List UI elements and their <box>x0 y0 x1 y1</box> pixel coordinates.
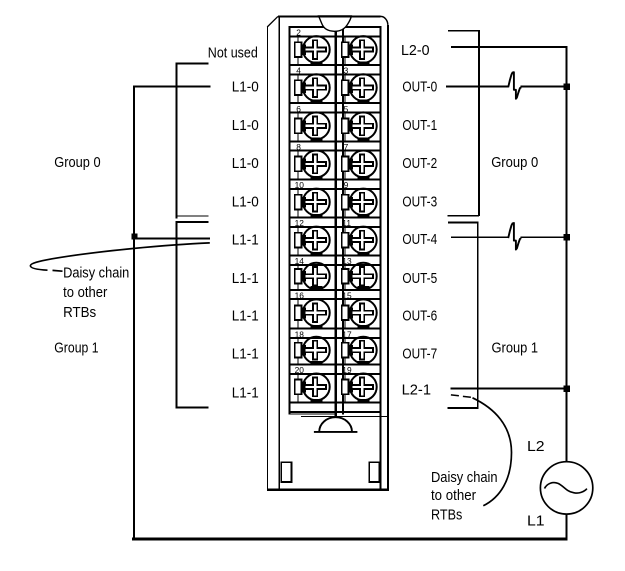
svg-text:14: 14 <box>295 256 305 266</box>
strip border row 10 top <box>289 363 382 365</box>
svg-text:3: 3 <box>344 66 349 76</box>
wire: vertical below AC source <box>565 514 567 541</box>
svg-text:4: 4 <box>296 66 301 76</box>
terminal 9 (right col row 5) <box>344 190 345 217</box>
terminal 15 (right col row 8) <box>344 300 345 328</box>
strip border row 11 top <box>289 401 382 403</box>
wire: L1-0 stub row2 <box>133 85 211 87</box>
terminal 20 (left col row 10) <box>297 375 298 402</box>
svg-text:6: 6 <box>296 104 301 114</box>
svg-text:9: 9 <box>344 180 349 190</box>
wire: OUT-4 right segment <box>520 236 566 238</box>
strip border row 6 bottom <box>289 226 382 228</box>
svg-text:L1-0: L1-0 <box>232 117 259 134</box>
svg-text:L2: L2 <box>527 438 545 455</box>
bracket: right group1 bottom stub <box>447 407 478 409</box>
bracket: left group bracket upper vertical <box>176 63 178 219</box>
separator: left thick line group 1 top <box>176 221 209 223</box>
svg-text:OUT-1: OUT-1 <box>402 117 437 134</box>
wire: OUT-4 left segment <box>451 236 509 238</box>
bracket: right group1 vertical <box>477 221 479 408</box>
svg-text:L1: L1 <box>527 512 545 529</box>
strip border row 5 bottom <box>289 188 382 190</box>
svg-text:10: 10 <box>295 180 305 190</box>
strip border row 7 bottom <box>289 264 382 266</box>
svg-text:L1-0: L1-0 <box>232 155 259 172</box>
svg-text:Not used: Not used <box>208 45 258 62</box>
svg-text:5: 5 <box>344 104 349 114</box>
RTB outer outline left <box>267 27 268 490</box>
svg-text:L1-0: L1-0 <box>232 193 259 210</box>
terminal 7 (right col row 4) <box>344 152 345 179</box>
AC source sine wave <box>545 483 587 493</box>
strip border row 1 bottom <box>289 35 382 37</box>
strip border row 1 top <box>289 26 382 28</box>
wire: L1-1 stub row6 <box>133 237 210 239</box>
AC source circle <box>540 462 592 514</box>
wire: L1 rail vertical left <box>133 85 135 540</box>
svg-text:L2-0: L2-0 <box>401 42 430 59</box>
bracket: left group bracket lower vertical <box>176 221 178 409</box>
node: junction rail/OUT-4 <box>563 234 570 241</box>
terminal 13 (right col row 7) <box>344 266 345 289</box>
strip border row 11 bottom <box>289 411 382 413</box>
terminal 17 (right col row 9) <box>344 339 345 363</box>
RTB outer outline chamfer <box>267 16 278 27</box>
wire: right rail vertical <box>565 46 567 462</box>
svg-text:L1-1: L1-1 <box>232 346 259 363</box>
svg-text:Group 1: Group 1 <box>492 339 539 356</box>
terminal 18 (left col row 9) <box>297 339 298 363</box>
svg-text:L1-1: L1-1 <box>232 308 259 325</box>
svg-text:RTBs: RTBs <box>431 507 462 524</box>
RTB grid right border / inner right edge <box>380 26 382 489</box>
wire: L2-0 <box>451 46 568 48</box>
bottom shelf line to right edge <box>301 416 389 417</box>
node: junction L1 rail / L1-1 <box>131 234 137 240</box>
wire: Not used stub <box>176 63 209 65</box>
bottom step line left <box>289 413 337 414</box>
svg-text:OUT-4: OUT-4 <box>402 231 437 248</box>
strip border row 3 top <box>289 102 382 104</box>
strip border row 9 bottom <box>289 337 382 339</box>
RTB body top edge <box>278 15 381 17</box>
terminal 12 (left col row 6) <box>297 228 298 255</box>
strip border row 4 top <box>289 140 382 142</box>
RTB inner left edge <box>278 15 280 489</box>
svg-text:7: 7 <box>344 142 349 152</box>
terminal 1 (right col row 1) <box>344 37 345 64</box>
svg-text:L2-1: L2-1 <box>402 382 431 399</box>
wire: dashes below L2-1 <box>451 395 471 397</box>
terminal 4 (left col row 2) <box>297 76 298 103</box>
svg-text:L1-1: L1-1 <box>232 270 259 287</box>
svg-text:20: 20 <box>295 365 305 375</box>
strip border row 3 bottom <box>289 112 382 114</box>
strip border row 8 top <box>289 289 382 291</box>
strip border row 2 bottom <box>289 74 382 76</box>
wire: daisy-chain leader curve left <box>30 243 209 270</box>
wire: OUT-0 right segment <box>520 86 566 88</box>
wire: L2-1 <box>451 388 567 390</box>
terminal 6 (left col row 3) <box>297 114 298 141</box>
strip border row 2 top <box>289 64 382 66</box>
terminal 5 (right col row 3) <box>344 114 345 141</box>
svg-text:19: 19 <box>342 365 352 375</box>
terminal 2 (left col row 1) <box>297 37 298 64</box>
RTB bottom dome <box>314 417 358 432</box>
wire: daisy-chain leader curve right <box>473 398 512 506</box>
svg-text:OUT-0: OUT-0 <box>402 79 437 96</box>
terminal 19 (right col row 10) <box>344 375 345 402</box>
svg-text:Daisy chain: Daisy chain <box>431 469 498 486</box>
strip border row 6 top <box>289 217 382 219</box>
terminal 11 (right col row 6) <box>344 228 345 255</box>
svg-text:L1-1: L1-1 <box>232 232 259 249</box>
RTB top edge over notch <box>318 15 354 17</box>
wire: L1 bottom wire <box>132 538 568 541</box>
RTB centre divider <box>334 31 337 416</box>
RTB outer right edge <box>387 25 389 489</box>
RTB outer corner top right <box>381 16 388 25</box>
strip border row 9 top <box>289 328 382 330</box>
svg-text:8: 8 <box>296 142 301 152</box>
svg-text:OUT-5: OUT-5 <box>402 270 437 287</box>
svg-text:Group 1: Group 1 <box>54 339 98 356</box>
node: junction rail/L2-1 <box>563 386 570 393</box>
strip border row 8 bottom <box>289 298 382 300</box>
separator: right thin line group0 bottom <box>448 215 480 216</box>
wire: OUT-0 left segment <box>446 86 508 88</box>
terminal 8 (left col row 4) <box>297 152 298 179</box>
load: surge squiggle on OUT-4 <box>508 223 521 250</box>
svg-text:Daisy chain: Daisy chain <box>63 264 129 281</box>
terminal 16 (left col row 8) <box>297 300 298 328</box>
svg-text:2: 2 <box>296 28 301 38</box>
strip border row 5 top <box>289 178 382 180</box>
svg-text:RTBs: RTBs <box>63 304 96 321</box>
terminal 3 (right col row 2) <box>344 76 345 103</box>
node: junction rail/OUT-0 <box>563 83 570 90</box>
bracket: right group0 top stub <box>448 30 480 31</box>
svg-text:OUT-2: OUT-2 <box>402 155 437 172</box>
RTB top notch <box>319 16 352 31</box>
strip border row 7 top <box>289 255 382 257</box>
bracket: right group0 vertical <box>478 30 480 216</box>
svg-text:OUT-7: OUT-7 <box>402 346 437 363</box>
svg-text:Group 0: Group 0 <box>54 154 100 171</box>
svg-text:12: 12 <box>295 218 305 228</box>
svg-text:15: 15 <box>342 290 352 300</box>
svg-text:OUT-3: OUT-3 <box>402 193 437 210</box>
svg-text:18: 18 <box>295 329 305 339</box>
svg-text:to other: to other <box>431 487 476 504</box>
separator: left thin line between groups <box>176 216 209 217</box>
wire: left bracket bottom stub <box>176 407 209 409</box>
svg-text:17: 17 <box>342 329 352 339</box>
RTB left foot <box>281 462 291 482</box>
RTB right foot <box>369 462 379 482</box>
RTB grid left border <box>289 26 291 415</box>
RTB right column left border <box>342 26 344 415</box>
terminal 14 (left col row 7) <box>297 266 298 289</box>
terminal 10 (left col row 5) <box>297 190 298 217</box>
load: surge squiggle on OUT-0 <box>508 72 521 99</box>
svg-text:11: 11 <box>342 218 351 228</box>
svg-text:L1-1: L1-1 <box>232 385 259 402</box>
RTB bottom edge <box>267 488 389 491</box>
svg-text:OUT-6: OUT-6 <box>402 308 437 325</box>
svg-text:L1-0: L1-0 <box>232 79 259 96</box>
svg-text:16: 16 <box>295 290 305 300</box>
strip border row 10 bottom <box>289 373 382 375</box>
strip border row 4 bottom <box>289 150 382 152</box>
separator: right thick line group1 top <box>448 221 478 223</box>
svg-text:to other: to other <box>63 284 107 301</box>
svg-text:13: 13 <box>342 256 352 266</box>
svg-text:Group 0: Group 0 <box>491 154 538 171</box>
